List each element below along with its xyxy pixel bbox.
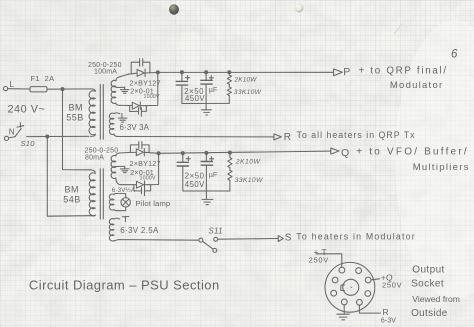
ground below socket pin6	[337, 313, 350, 315]
svg-text:To all heaters in QRP Tx: To all heaters in QRP Tx	[297, 130, 416, 140]
svg-text:2K10W: 2K10W	[234, 77, 258, 84]
svg-text:µF: µF	[209, 87, 218, 94]
terminal L	[4, 87, 8, 91]
svg-text:33K10W: 33K10W	[235, 177, 263, 184]
wire secondary bottom to diode D2	[120, 104, 132, 106]
svg-text:L: L	[10, 80, 15, 89]
wire P rail	[158, 71, 334, 73]
ground below C2	[202, 109, 212, 111]
output socket body	[325, 262, 375, 312]
svg-text:33K10W: 33K10W	[234, 89, 262, 96]
transformer T2 core	[99, 169, 101, 219]
svg-text:BM: BM	[69, 103, 84, 113]
junction R divider	[228, 71, 231, 74]
wire bottom bus bank1	[182, 102, 229, 104]
svg-text:µF: µF	[209, 172, 218, 179]
transformer T1 HT secondary winding	[116, 77, 120, 81]
ground below C4	[202, 198, 213, 200]
socket center hole with keyway	[343, 279, 359, 295]
wire secondary top to diode D3	[120, 151, 137, 154]
svg-text:6·3V 3A: 6·3V 3A	[120, 123, 150, 132]
svg-text:+ to VFO/ Buffer/: + to VFO/ Buffer/	[356, 146, 469, 157]
drawing pin left	[169, 4, 179, 14]
junction node on N wire	[46, 135, 49, 138]
wire winding to switch S11	[118, 239, 199, 242]
transformer T1 6.3V 3A winding	[114, 112, 120, 115]
wire secondary top to diode D1	[120, 73, 138, 77]
transformer T2 HT secondary winding	[116, 153, 120, 156]
pilot lamp LP1	[121, 198, 130, 207]
svg-text:P: P	[343, 66, 350, 78]
svg-text:BM: BM	[65, 185, 80, 195]
terminal N	[4, 136, 8, 140]
svg-text:S: S	[285, 233, 292, 244]
chassis ground at T2 center tap	[124, 166, 126, 168]
socket pin 7	[331, 290, 337, 296]
svg-text:54B: 54B	[63, 195, 81, 205]
capacitor C2 50uF 450V	[205, 72, 207, 80]
wire switch to junction	[27, 135, 89, 137]
capacitor across D3 (0.01uF)	[130, 145, 138, 153]
fuse F1	[30, 87, 47, 92]
svg-text:240 V~: 240 V~	[8, 103, 46, 115]
diode D3 (BY127)	[136, 149, 143, 156]
capacitor across D1 (0.01uF)	[131, 62, 139, 73]
node Q junction	[157, 152, 160, 155]
svg-text:R: R	[284, 132, 292, 143]
paper crease top right	[394, 24, 402, 34]
svg-text:S10: S10	[21, 139, 36, 148]
svg-text:N: N	[9, 128, 15, 137]
svg-text:Circuit Diagram – PSU Section: Circuit Diagram – PSU Section	[29, 277, 220, 292]
svg-text:S11: S11	[208, 227, 223, 236]
wire pin5 to R label	[359, 305, 380, 313]
wire D2 cathode up to node P	[141, 72, 158, 105]
arrow S	[278, 236, 283, 242]
socket pin 3 (Q)	[365, 277, 371, 283]
wire pin6 to ground	[343, 305, 345, 314]
svg-text:Outside: Outside	[411, 308, 448, 319]
svg-text:Viewed from: Viewed from	[412, 294, 460, 304]
svg-text:6: 6	[451, 48, 458, 60]
junction C1	[180, 71, 183, 74]
wire fuse to transformer T1 primary	[47, 88, 91, 90]
wire secondary bottom to diode D4	[121, 184, 137, 186]
svg-text:250V: 250V	[382, 280, 402, 289]
wire S rail	[218, 238, 279, 241]
svg-text:450V: 450V	[185, 180, 205, 189]
svg-text:Q: Q	[341, 147, 349, 159]
resistor 33K 10W (bleeder 1)	[228, 84, 230, 87]
socket pin 5 (R)	[357, 299, 363, 305]
wire D3 cathode to node Q	[144, 152, 158, 153]
svg-text:+ to QRP final/: + to QRP final/	[359, 66, 448, 77]
transformer T2 6.3V half-amp winding	[109, 194, 114, 210]
capacitor across D2 (0.01uF)	[130, 106, 139, 112]
svg-text:Socket: Socket	[411, 279, 444, 290]
switch S10	[9, 137, 16, 138]
capacitor C4 50uF 450V	[205, 153, 207, 162]
svg-text:1000V: 1000V	[140, 175, 156, 181]
junction R divider 2	[228, 151, 231, 154]
paper shading	[0, 0, 180, 100]
node P junction	[156, 71, 159, 74]
capacitor C1 50uF 450V	[181, 72, 183, 81]
socket pin 1 (T)	[339, 267, 345, 273]
transformer T1 core	[99, 85, 101, 140]
chassis ground at T1 center tap	[124, 87, 126, 89]
svg-text:250V: 250V	[309, 256, 329, 265]
svg-text:450V: 450V	[185, 94, 205, 103]
wire junction down to T2 primary	[63, 89, 91, 170]
wire T2 secondary center tap	[116, 165, 125, 167]
junction node on L wire	[61, 88, 64, 91]
resistor 2K 10W (bleeder 1)	[228, 72, 230, 75]
socket pin 2	[356, 268, 362, 274]
arrow P	[334, 69, 343, 76]
svg-text:Multipliers: Multipliers	[413, 162, 470, 173]
svg-text:To heaters in Modulator: To heaters in Modulator	[296, 232, 416, 242]
transformer T2 primary winding	[90, 170, 95, 174]
tap mark above 6.3V 2.5A winding	[122, 216, 129, 218]
drawing pin right	[295, 3, 304, 12]
svg-text:100mA: 100mA	[94, 69, 117, 76]
svg-text:Modulator: Modulator	[390, 80, 444, 91]
capacitor across D4 (0.01uF)	[134, 185, 141, 191]
svg-text:1000V: 1000V	[144, 94, 160, 100]
junction C2	[205, 71, 208, 74]
svg-text:80mA: 80mA	[85, 154, 104, 161]
arrow Q	[331, 148, 339, 154]
diode D2 (BY127)	[132, 102, 139, 109]
svg-text:6-3V: 6-3V	[381, 317, 396, 324]
transformer T1 primary winding	[91, 89, 96, 91]
arrow R	[274, 134, 282, 140]
svg-text:Pilot lamp: Pilot lamp	[136, 199, 171, 208]
socket pin 4	[365, 291, 371, 297]
svg-text:55B: 55B	[66, 112, 84, 122]
svg-text:Output: Output	[412, 265, 444, 276]
resistor 33K 10W (bleeder 2)	[229, 168, 231, 171]
svg-text:2×BY127: 2×BY127	[130, 159, 161, 168]
svg-text:6·3V 2.5A: 6·3V 2.5A	[120, 226, 159, 235]
svg-text:F1 2A: F1 2A	[31, 74, 55, 83]
transformer T2 6.3V 2.5A winding	[114, 217, 120, 220]
wire pilot lamp loop	[114, 193, 126, 197]
junction C4	[205, 151, 208, 154]
diode D4 (BY127)	[137, 181, 144, 188]
junction C3	[181, 152, 184, 155]
wire D1 cathode to node P	[145, 71, 158, 74]
svg-text:R: R	[383, 307, 389, 317]
wire T1 secondary center tap	[116, 86, 125, 88]
wire Q rail	[159, 151, 331, 153]
socket pin 8	[332, 277, 338, 283]
wire junction down to T2 primary bottom	[47, 137, 90, 217]
wire pin3 to Q label	[371, 279, 380, 280]
resistor 2K 10W (bleeder 2)	[229, 153, 231, 158]
capacitor C3 50uF 450V	[182, 153, 184, 162]
wire bottom bus bank2	[183, 190, 230, 192]
svg-text:2K10W: 2K10W	[235, 158, 261, 165]
ground at 6.3V 3A winding top	[121, 114, 123, 118]
switch S11	[199, 238, 203, 242]
wire D4 cathode up to node Q	[145, 153, 158, 184]
diode D1 (BY127)	[137, 70, 144, 77]
socket pin 6 (ground)	[341, 299, 347, 305]
svg-text:250-0-250: 250-0-250	[85, 147, 119, 154]
svg-text:6·3V½A: 6·3V½A	[112, 186, 136, 194]
wire R rail	[119, 136, 274, 138]
wire L to fuse	[8, 88, 30, 90]
wire pin1 to T label	[317, 254, 342, 267]
